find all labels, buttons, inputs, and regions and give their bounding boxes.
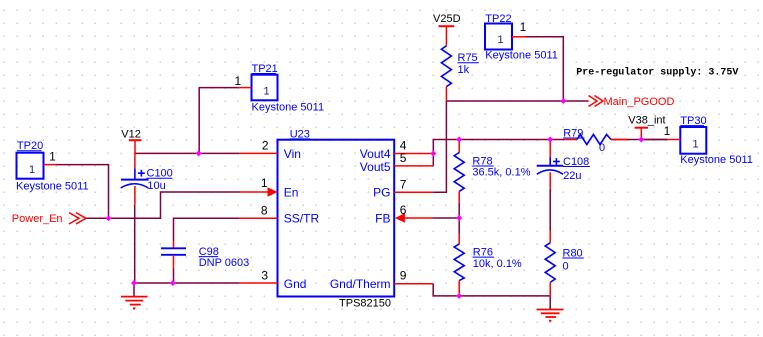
svg-text:Keystone 5011: Keystone 5011 bbox=[252, 102, 325, 114]
svg-text:Vin: Vin bbox=[284, 147, 301, 161]
wire C98 top to SS/TR pin bbox=[174, 218, 240, 241]
wire TP21 pin down to Vin rail bbox=[199, 88, 238, 154]
svg-text:V12: V12 bbox=[121, 128, 141, 140]
svg-text:6: 6 bbox=[400, 203, 407, 217]
test point TP21 body bbox=[252, 75, 278, 101]
ground symbol left bbox=[133, 283, 135, 296]
wire C100 bottom to ground rail bbox=[134, 205, 136, 283]
svg-text:Keystone 5011: Keystone 5011 bbox=[485, 50, 558, 62]
capacitor C108 bbox=[549, 140, 551, 158]
TP22 pin 1 stub bbox=[512, 36, 526, 38]
TP20 pin 1 stub bbox=[44, 164, 57, 166]
svg-text:Vout5: Vout5 bbox=[360, 160, 391, 174]
svg-text:PG: PG bbox=[373, 185, 390, 199]
svg-text:1: 1 bbox=[497, 34, 503, 46]
svg-text:1: 1 bbox=[49, 149, 56, 163]
wire V12 rail to Vin pin bbox=[135, 152, 239, 154]
wire TP20 pin to Power_En junction bbox=[57, 165, 109, 219]
U23 pin 1 En stub with input arrow bbox=[240, 191, 270, 193]
svg-text:1: 1 bbox=[29, 164, 35, 176]
svg-text:10u: 10u bbox=[147, 180, 165, 192]
ground symbol right bbox=[549, 296, 551, 309]
U23 pin 5 Vout5 stub bbox=[394, 165, 433, 167]
resistor R79 bbox=[564, 139, 578, 141]
test point TP20 body bbox=[17, 153, 44, 179]
junction node output rail/V38_int bbox=[638, 137, 644, 143]
svg-text:En: En bbox=[284, 185, 299, 199]
wire Vout5 riser to Vout4 junction bbox=[433, 140, 459, 166]
wire C98 bottom to ground rail bbox=[173, 269, 175, 284]
svg-text:8: 8 bbox=[261, 203, 268, 217]
wire R75 bottom down to PG pin bbox=[433, 101, 446, 192]
junction node Power_En/TP20 bbox=[106, 215, 112, 221]
port Power_En chevron bbox=[69, 213, 79, 224]
capacitor C100 bbox=[134, 153, 136, 168]
wire R78 bottom to FB junction bbox=[458, 203, 460, 218]
svg-text:Main_PGOOD: Main_PGOOD bbox=[604, 96, 675, 108]
wire Main_PGOOD rail bbox=[446, 100, 588, 102]
svg-text:3: 3 bbox=[261, 268, 268, 282]
junction node output rail/R78 bbox=[456, 137, 462, 143]
junction node ground rail/C98 bbox=[170, 280, 176, 286]
TP21 pin 1 stub bbox=[238, 87, 252, 89]
svg-text:Pre-regulator supply: 3.75V: Pre-regulator supply: 3.75V bbox=[576, 66, 738, 78]
svg-text:1k: 1k bbox=[458, 64, 470, 76]
wire FB pin to divider junction bbox=[433, 217, 459, 219]
svg-text:5: 5 bbox=[400, 151, 407, 165]
junction node ground rail/C100 bbox=[131, 280, 137, 286]
svg-text:Keystone 5011: Keystone 5011 bbox=[680, 154, 753, 166]
U23 pin 9 Gnd/Therm stub bbox=[394, 283, 433, 285]
wire TP22 pin down to Main_PGOOD rail bbox=[526, 37, 564, 101]
svg-text:1: 1 bbox=[234, 74, 241, 88]
svg-text:0: 0 bbox=[563, 260, 569, 272]
capacitor C98 bbox=[173, 241, 175, 248]
svg-text:1: 1 bbox=[520, 20, 527, 34]
regulator U23 body bbox=[278, 140, 395, 297]
wire V38_int junction to TP30 pin bbox=[641, 139, 667, 141]
U23 pin 3 Gnd stub bbox=[239, 282, 278, 284]
svg-text:1: 1 bbox=[263, 86, 269, 98]
resistor R78 bbox=[458, 140, 460, 153]
wire FB junction down to R76 top bbox=[458, 218, 460, 234]
U23 pin 2 Vin stub bbox=[239, 152, 278, 154]
wire C108 bottom to R80 top bbox=[549, 189, 551, 230]
svg-text:FB: FB bbox=[375, 211, 390, 225]
wire output rail R78 junction to C108 junction bbox=[459, 139, 563, 141]
svg-text:TPS82150: TPS82150 bbox=[339, 297, 391, 309]
test point TP30 body bbox=[680, 127, 706, 154]
svg-text:22u: 22u bbox=[563, 170, 581, 182]
wire Gnd/Therm pin to right ground rail bbox=[433, 284, 550, 296]
svg-text:7: 7 bbox=[400, 177, 407, 191]
junction node output rail/C108 bbox=[547, 137, 553, 143]
svg-text:36.5k, 0.1%: 36.5k, 0.1% bbox=[472, 167, 530, 179]
resistor R76 bbox=[458, 234, 460, 244]
resistor R75 bbox=[441, 46, 451, 87]
svg-text:V38_int: V38_int bbox=[628, 115, 665, 127]
TP30 pin 1 stub bbox=[667, 139, 680, 141]
svg-text:Vout4: Vout4 bbox=[360, 147, 391, 161]
wire left ground rail to Gnd pin bbox=[134, 282, 239, 284]
U23 pin 6 FB stub with input arrow bbox=[404, 217, 433, 219]
svg-text:10k, 0.1%: 10k, 0.1% bbox=[473, 258, 522, 270]
U23 pin 8 SS/TR stub bbox=[239, 217, 278, 219]
junction node Main_PGOOD/TP22 bbox=[560, 98, 566, 104]
port Main_PGOOD chevron bbox=[589, 96, 598, 107]
svg-text:Power_En: Power_En bbox=[12, 213, 63, 225]
svg-text:SS/TR: SS/TR bbox=[284, 211, 320, 225]
svg-text:Gnd/Therm: Gnd/Therm bbox=[330, 277, 391, 291]
U23 pin 4 Vout4 stub bbox=[394, 153, 433, 155]
junction node Vout4/Vout5 bbox=[430, 151, 436, 157]
svg-text:0: 0 bbox=[599, 142, 605, 154]
wire Power_En port to En pin jog bbox=[84, 192, 240, 218]
junction node Vin/TP21 bbox=[196, 150, 202, 156]
svg-text:Gnd: Gnd bbox=[284, 277, 307, 291]
svg-text:1: 1 bbox=[692, 139, 698, 151]
junction node FB divider bbox=[456, 215, 462, 221]
svg-text:1: 1 bbox=[261, 176, 268, 190]
resistor R80 bbox=[549, 230, 551, 243]
test point TP22 body bbox=[485, 24, 512, 50]
svg-text:Keystone 5011: Keystone 5011 bbox=[16, 181, 89, 193]
svg-text:V25D: V25D bbox=[433, 13, 461, 25]
junction node ground rail/R76 bbox=[456, 293, 462, 299]
svg-text:DNP 0603: DNP 0603 bbox=[199, 257, 250, 269]
wire R79 right lead to V38_int junction bbox=[611, 139, 667, 141]
U23 pin 7 PG stub bbox=[394, 191, 433, 193]
svg-text:9: 9 bbox=[400, 269, 407, 283]
svg-text:2: 2 bbox=[262, 138, 269, 152]
